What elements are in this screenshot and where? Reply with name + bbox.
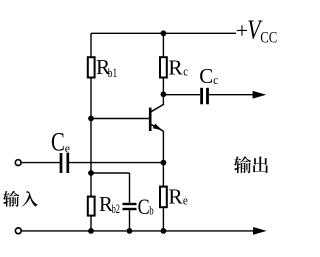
svg-text:C: C — [51, 128, 65, 157]
wire emitter branch lower — [162, 131, 164, 231]
capacitor Ce plates — [60, 153, 63, 173]
resistor R_c — [160, 57, 167, 77]
svg-text:R: R — [168, 185, 183, 209]
svg-text:C: C — [199, 64, 213, 88]
wire Cb upper lead — [129, 173, 131, 203]
wire Cb lower lead — [129, 210, 131, 231]
label shu of 输入 (input) — [3, 191, 19, 207]
svg-text:b: b — [149, 204, 153, 218]
capacitor Cc plates — [200, 88, 203, 105]
wire base — [91, 118, 149, 120]
svg-text:e: e — [183, 194, 188, 208]
svg-text:R: R — [168, 55, 183, 79]
svg-text:c: c — [183, 65, 188, 79]
wire bias node to Cb — [91, 172, 130, 174]
svg-text:c: c — [213, 72, 218, 87]
node: emitter/input junction — [161, 160, 167, 166]
node: Re/ground junction — [161, 228, 167, 234]
node: Vcc/Rc junction — [161, 30, 167, 36]
output arrow (bottom) — [253, 227, 267, 235]
node: collector/output junction — [161, 91, 167, 97]
wire input to Ce — [22, 162, 60, 164]
svg-text:C: C — [138, 194, 150, 219]
output arrow (top) — [253, 91, 267, 99]
label ru of 输入 (input) — [22, 191, 38, 207]
transistor Q1 emitter arrow — [153, 124, 163, 131]
wire ground rail — [22, 230, 254, 232]
wire collector branch upper — [162, 33, 164, 104]
transistor Q1 collector lead — [151, 104, 164, 112]
wire left vertical (Rb1/Rb2 branch) — [90, 33, 92, 231]
wire Ce to emitter node — [69, 162, 164, 164]
transistor Q1 emitter lead — [151, 124, 164, 131]
wire Cc to output — [209, 94, 254, 96]
input terminal (bottom) — [15, 228, 21, 234]
svg-text:CC: CC — [260, 29, 277, 46]
wire collector to Cc — [163, 94, 200, 96]
label chu of 输出 (output) — [253, 156, 268, 173]
svg-text:b1: b1 — [108, 66, 118, 80]
svg-text:b2: b2 — [112, 202, 120, 216]
resistor R_e — [160, 187, 167, 208]
capacitor Cb plates — [123, 203, 137, 205]
resistor R_b2 — [88, 197, 95, 216]
node: Cb/ground junction — [127, 228, 133, 234]
input terminal (top) — [15, 160, 21, 166]
resistor R_b1 — [88, 57, 95, 77]
transistor Q1 base bar — [149, 108, 152, 131]
node: Rb2/ground junction — [88, 228, 94, 234]
node: Rb2/Cb junction — [88, 170, 94, 176]
node: base bias junction — [88, 116, 94, 122]
wire Vcc rail — [91, 32, 236, 34]
label shu of 输出 (output) — [234, 156, 251, 173]
svg-text:e: e — [65, 142, 71, 156]
